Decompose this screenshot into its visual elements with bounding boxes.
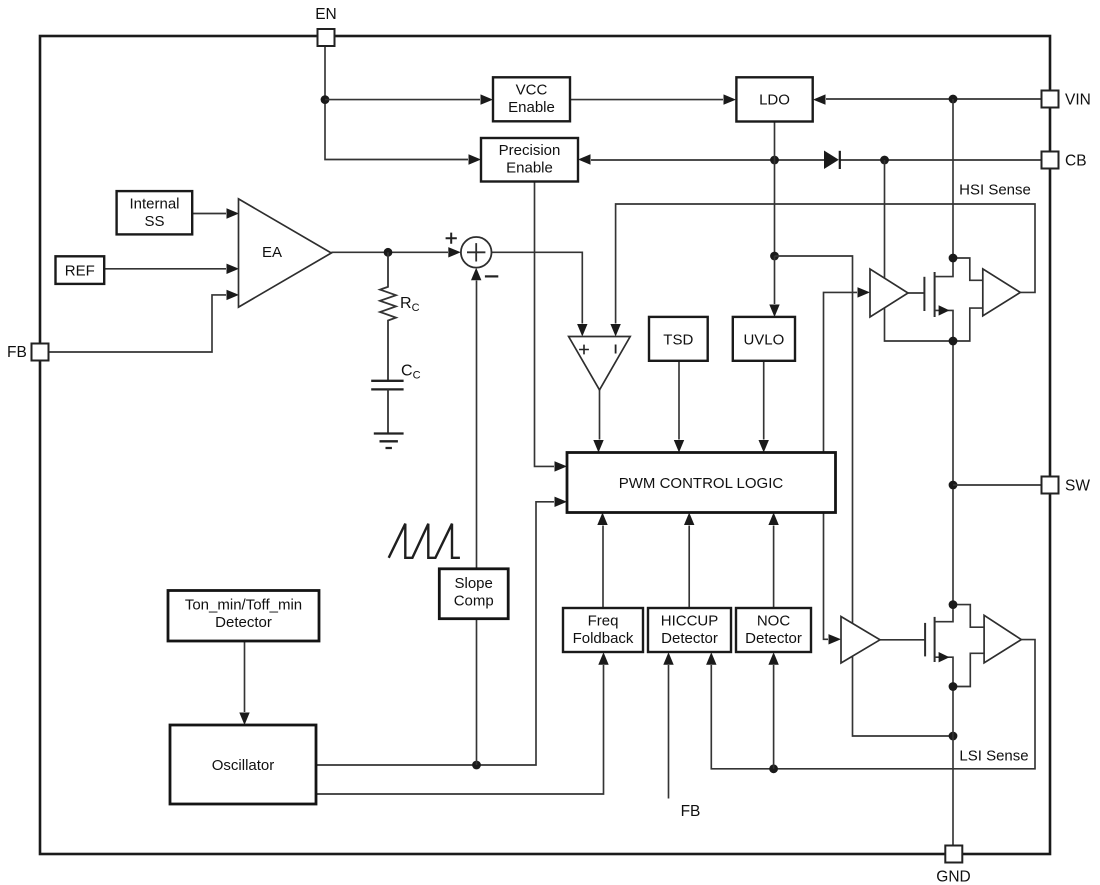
arrowhead into Oscillator top xyxy=(239,713,249,726)
transistor LS FET xyxy=(925,605,953,687)
arrowhead into LS driver xyxy=(829,634,842,644)
wire Precision Enable to PWM logic xyxy=(535,181,555,466)
node VIN rail junction xyxy=(949,95,958,104)
wire LS driver to LS gate xyxy=(880,639,925,641)
summing junction plus mark xyxy=(467,243,485,261)
arrowhead into EA input 1 xyxy=(227,208,240,218)
svg-text:HSI Sense: HSI Sense xyxy=(959,182,1031,199)
wire Internal SS to EA xyxy=(192,213,226,215)
block NOC Detector xyxy=(736,608,811,652)
svg-text:LSI Sense: LSI Sense xyxy=(959,748,1028,765)
node low-side rail to GND line junction xyxy=(949,732,958,741)
svg-text:GND: GND xyxy=(936,869,970,885)
wire CB bootstrap rail to high-side driver xyxy=(885,160,954,341)
comparator PWM xyxy=(569,337,631,390)
block Internal SS xyxy=(117,191,193,234)
pin SW xyxy=(1042,477,1091,495)
arrowhead into HS driver xyxy=(858,287,871,297)
wire Oscillator to PWM logic xyxy=(316,502,554,765)
svg-text:Detector: Detector xyxy=(745,630,802,647)
wire summing junction output to PWM comparator xyxy=(491,252,582,323)
wire VCC to UVLO xyxy=(774,256,776,304)
svg-text:Internal: Internal xyxy=(129,196,179,213)
svg-text:Oscillator: Oscillator xyxy=(212,757,275,774)
wire GND rail xyxy=(952,687,954,846)
amp HSI sense xyxy=(983,269,1021,316)
pin CB xyxy=(1042,152,1087,170)
pin VIN xyxy=(1042,91,1091,109)
wire PWM logic to high-side driver xyxy=(824,292,858,452)
node VCC joins CB-diode line xyxy=(770,156,779,165)
svg-text:EN: EN xyxy=(315,6,337,23)
wire SW pin lead xyxy=(953,484,1042,486)
op-amp EA xyxy=(239,199,332,307)
block Freq Foldback xyxy=(563,608,643,652)
wire EN vertical to Precision Enable row xyxy=(325,37,468,160)
arrowhead into comparator plus input xyxy=(577,324,587,337)
wire FB pin to EA xyxy=(48,295,226,352)
resistor RC xyxy=(380,252,396,380)
arrowhead into UVLO top xyxy=(769,305,779,318)
node EN branch junction xyxy=(321,95,330,104)
block REF xyxy=(56,256,105,284)
wire EA output to summing junction xyxy=(331,251,448,253)
wire PWM logic to low-side driver xyxy=(824,513,829,640)
node LS source xyxy=(949,682,958,691)
arrowhead HICCUP into PWM bottom xyxy=(684,513,694,526)
svg-text:SW: SW xyxy=(1065,478,1090,495)
wire FB input to HICCUP Detector xyxy=(668,665,670,799)
block Slope Comp xyxy=(439,569,508,619)
arrowhead TSD into PWM top xyxy=(674,440,684,453)
wire VIN pin to LDO xyxy=(826,98,1042,100)
svg-text:Detector: Detector xyxy=(661,630,718,647)
wire VCC to low-side driver rail xyxy=(775,256,954,736)
svg-text:TSD: TSD xyxy=(663,332,693,349)
arrowhead into comparator minus input xyxy=(610,324,620,337)
arrowhead Freq Foldback into PWM bottom xyxy=(597,513,607,526)
arrowhead into Precision Enable right xyxy=(578,154,591,164)
wire Oscillator to Slope Comp xyxy=(476,619,478,765)
arrowhead into EA input 2 xyxy=(227,264,240,274)
node LS drain xyxy=(949,600,958,609)
arrowhead comparator into PWM top xyxy=(593,440,603,453)
node SW junction xyxy=(949,481,958,490)
svg-text:Foldback: Foldback xyxy=(573,630,634,647)
node slope comp branch on oscillator line xyxy=(472,761,481,770)
arrowhead LSI into HICCUP bottom xyxy=(706,652,716,665)
svg-text:REF: REF xyxy=(65,263,95,280)
svg-text:Detector: Detector xyxy=(215,614,272,631)
wire NOC Detector to PWM logic xyxy=(773,526,775,609)
svg-text:Enable: Enable xyxy=(508,99,555,116)
svg-text:Slope: Slope xyxy=(455,575,493,592)
node CB to bootstrap rail junction xyxy=(880,156,889,165)
svg-text:Comp: Comp xyxy=(454,593,494,610)
svg-text:CB: CB xyxy=(1065,153,1087,170)
comparator I label xyxy=(615,345,617,354)
wire LSI sense branch to NOC Detector xyxy=(773,665,775,769)
arrowhead into PWM left upper xyxy=(555,461,568,471)
arrowhead into LDO right xyxy=(813,94,826,104)
wire LSI Sense output to HICCUP Detector xyxy=(711,640,1035,769)
wire HS driver to HS gate xyxy=(908,292,924,294)
block HICCUP Detector xyxy=(648,608,731,652)
svg-text:Freq: Freq xyxy=(588,613,619,630)
arrowhead into EA input 3 xyxy=(227,290,240,300)
wire CB pin line with diode net xyxy=(591,159,1042,161)
wire HSI Sense feedback to comparator xyxy=(616,204,1035,324)
arrowhead UVLO into PWM top xyxy=(759,440,769,453)
svg-text:NOC: NOC xyxy=(757,613,791,630)
svg-text:EA: EA xyxy=(262,244,282,261)
wire CC to ground xyxy=(387,389,389,433)
svg-text:FB: FB xyxy=(681,803,701,820)
wire HSI sense amp input stubs xyxy=(953,258,983,341)
svg-text:PWM CONTROL LOGIC: PWM CONTROL LOGIC xyxy=(619,475,784,492)
buffer HS driver xyxy=(870,269,908,317)
block Precision Enable xyxy=(481,138,578,182)
block PWM CONTROL LOGIC xyxy=(567,453,836,513)
arrowhead FB into HICCUP bottom xyxy=(663,652,673,665)
arrowhead into summing junction left xyxy=(448,247,461,257)
wire TSD to PWM logic xyxy=(678,361,680,440)
svg-text:LDO: LDO xyxy=(759,92,790,109)
wire Freq Foldback to PWM logic xyxy=(602,526,604,609)
block TSD xyxy=(649,317,708,361)
diode D1 bootstrap xyxy=(824,151,840,170)
summing junction circle xyxy=(461,237,492,268)
wire VIN rail down to high-side FET drain xyxy=(952,99,954,258)
wire comparator output to PWM logic xyxy=(599,390,601,440)
sawtooth waveform xyxy=(389,524,460,558)
arrowhead into Freq Foldback bottom xyxy=(598,652,608,665)
comparator plus label xyxy=(579,345,589,355)
block VCC Enable xyxy=(493,77,570,121)
arrowhead into VCC Enable left xyxy=(481,94,494,104)
wire HICCUP Detector to PWM logic xyxy=(688,526,690,609)
svg-text:FB: FB xyxy=(7,344,27,361)
node LSI sense branch to NOC xyxy=(769,764,778,773)
node HS drain xyxy=(949,254,958,263)
arrowhead LSI into NOC bottom xyxy=(768,652,778,665)
wire UVLO to PWM logic xyxy=(763,361,765,440)
wire Slope Comp to summing junction minus xyxy=(476,281,478,570)
capacitor CC xyxy=(371,381,403,390)
arrowhead NOC into PWM bottom xyxy=(768,513,778,526)
pin FB xyxy=(7,344,49,362)
wire SW rail xyxy=(952,341,954,605)
label summing plus xyxy=(446,233,457,244)
svg-text:VIN: VIN xyxy=(1065,92,1091,109)
arrowhead into Precision Enable left xyxy=(469,154,482,164)
ground symbol xyxy=(374,434,404,449)
block Ton_min/Toff_min Detector xyxy=(168,591,319,642)
arrowhead into LDO left xyxy=(724,94,737,104)
block Oscillator xyxy=(170,725,316,804)
svg-text:Ton_min/Toff_min: Ton_min/Toff_min xyxy=(185,597,302,614)
buffer LS driver xyxy=(841,617,880,664)
pin EN xyxy=(315,6,337,46)
node EA output compensation junction xyxy=(384,248,393,257)
wire LDO output VCC down xyxy=(774,121,776,256)
svg-text:HICCUP: HICCUP xyxy=(661,613,719,630)
svg-text:Enable: Enable xyxy=(506,160,553,177)
pin GND xyxy=(936,846,970,885)
arrowhead into PWM left lower xyxy=(555,497,568,507)
svg-text:VCC: VCC xyxy=(516,82,548,99)
svg-text:SS: SS xyxy=(144,213,164,230)
arrowhead into summing junction bottom xyxy=(471,268,481,281)
amp LSI sense xyxy=(984,615,1021,663)
block LDO xyxy=(736,77,812,121)
wire Ton detector to Oscillator xyxy=(244,642,246,713)
svg-text:UVLO: UVLO xyxy=(743,332,784,349)
wire LSI sense amp input stubs xyxy=(953,605,984,687)
wire VCC Enable output to LDO xyxy=(570,99,723,101)
wire Oscillator to Freq Foldback xyxy=(316,665,604,794)
transistor HS FET xyxy=(924,258,953,341)
node VCC branch junction xyxy=(770,252,779,261)
wire REF to EA xyxy=(104,268,226,270)
svg-text:Precision: Precision xyxy=(499,142,561,159)
block UVLO xyxy=(733,317,795,361)
wire EN branch to VCC Enable xyxy=(325,99,480,101)
label summing minus xyxy=(485,275,498,277)
node HS source xyxy=(949,337,958,346)
